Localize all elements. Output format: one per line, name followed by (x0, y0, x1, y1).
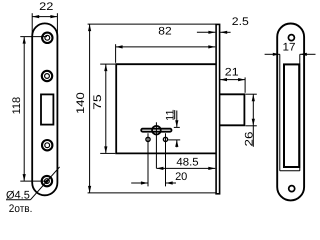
arrow 17 right (300, 53, 307, 56)
svg-text:22: 22 (39, 1, 53, 13)
faceplate (left plate outline) (32, 23, 57, 195)
arrow 48.5 left (156, 167, 163, 170)
arrow 20 right (166, 181, 173, 184)
svg-text:21: 21 (225, 67, 239, 79)
arrow 21 right (238, 78, 245, 81)
keyhole boss (152, 126, 161, 135)
faceplate screw hole 1 (42, 33, 52, 43)
svg-text:20: 20 (175, 171, 187, 183)
arrow 20 left (141, 181, 148, 184)
svg-text:118: 118 (11, 97, 23, 115)
strike plate outline (277, 24, 304, 201)
svg-text:75: 75 (92, 94, 104, 110)
arrow 118 top (23, 37, 26, 44)
arrow 2.5 right (220, 31, 227, 34)
wire: 26 dim line (246, 94, 257, 147)
svg-text:17: 17 (283, 41, 296, 53)
wire: keyhole centerlines (148, 122, 166, 186)
svg-text:2отв.: 2отв. (9, 203, 33, 215)
arrow 17 left (273, 53, 280, 56)
arrow 82 left (116, 45, 123, 48)
wire: 82 dim line (116, 44, 216, 63)
arrow 75 top (104, 64, 107, 71)
svg-text:11: 11 (165, 109, 177, 120)
arrow 11 bottom (175, 140, 178, 147)
arrow 26 top (252, 94, 255, 101)
arrow 140 bottom (88, 186, 91, 193)
wire: 17 dim line (265, 54, 316, 171)
arrow leader (44, 176, 52, 184)
wire: 118 dim line (20, 37, 47, 182)
arrow 82 right (208, 45, 215, 48)
faceplate bolt cutout (41, 94, 53, 124)
keyhole pin circle right (163, 137, 167, 141)
arrow 26 bottom (252, 119, 255, 126)
arrow 21 left (220, 78, 227, 81)
strike plate top hole (288, 35, 294, 41)
wire: 140 dim line (88, 24, 216, 193)
arrow 11 top (175, 120, 178, 127)
wire: 20 dim line (131, 182, 176, 184)
svg-text:48.5: 48.5 (176, 157, 198, 169)
lock body outline (116, 64, 216, 153)
lock front flange plate (216, 24, 220, 193)
arrow 118 bottom (23, 174, 26, 181)
wire: 75 dim line (100, 64, 115, 153)
svg-text:140: 140 (75, 92, 87, 114)
strike plate cutout (284, 64, 299, 167)
wire: leader for hole callout (6, 167, 60, 200)
arrow 22 right (50, 15, 57, 18)
faceplate screw hole 4 (42, 176, 52, 186)
arrow 48.5 right (208, 167, 215, 170)
arrow 140 top (88, 24, 91, 31)
wire: 48.5 dim line (156, 167, 215, 169)
svg-text:2.5: 2.5 (232, 16, 249, 28)
faceplate screw hole 2 (42, 71, 52, 81)
keyhole pin circle left (146, 137, 150, 141)
wire: 22 dim line (32, 13, 57, 36)
svg-text:Ø4.5: Ø4.5 (6, 189, 30, 201)
arrowheads (23, 15, 307, 193)
keyhole bit slot (141, 129, 171, 132)
wire: 21 dim line (220, 77, 245, 92)
arrow 2.5 left (208, 31, 215, 34)
svg-text:82: 82 (158, 26, 171, 38)
arrow 75 bottom (104, 146, 107, 153)
arrow 22 left (32, 15, 39, 18)
wire: 2.5 dim lines (197, 31, 231, 33)
wire: 11 dim line (168, 110, 180, 147)
strike plate bottom hole (289, 186, 295, 192)
faceplate screw hole 3 (42, 140, 52, 150)
svg-text:26: 26 (244, 132, 256, 147)
deadbolt (220, 94, 245, 125)
